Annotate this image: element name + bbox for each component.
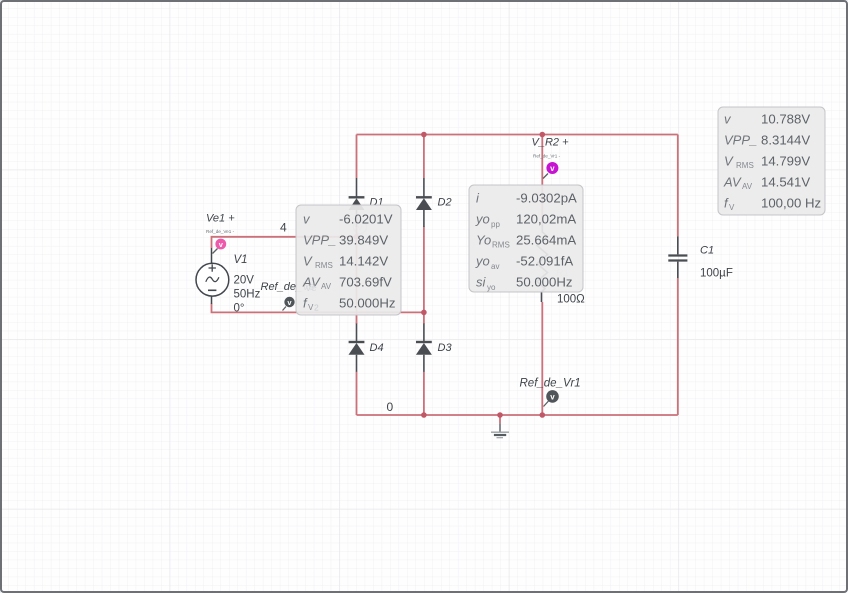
svg-text:Yo: Yo: [476, 233, 491, 248]
svg-text:av: av: [491, 262, 499, 271]
svg-text:AV: AV: [742, 182, 753, 191]
svg-text:10.788V: 10.788V: [761, 112, 810, 127]
svg-text:yo: yo: [475, 212, 490, 227]
junction V1 bottom to D2-D3: [421, 310, 427, 316]
svg-text:V1: V1: [234, 254, 248, 266]
junction top R2: [540, 132, 546, 138]
svg-text:Ref_de_Vr1: Ref_de_Vr1: [520, 378, 581, 390]
svg-text:50Hz: 50Hz: [234, 289, 261, 301]
svg-text:703.69fV: 703.69fV: [339, 275, 392, 290]
svg-text:14.799V: 14.799V: [761, 154, 810, 169]
measurement box 1 (Ve probe readout): [296, 205, 401, 315]
diode D1: [349, 178, 365, 227]
wire ground stub: [499, 415, 501, 423]
svg-text:VPP_: VPP_: [724, 133, 757, 148]
junction node 4: [354, 234, 360, 240]
wire right leg x=423.9: [423, 135, 425, 416]
resistor R2: [537, 225, 548, 302]
svg-text:0: 0: [387, 400, 394, 414]
svg-text:D2: D2: [438, 197, 452, 209]
svg-text:50.000Hz: 50.000Hz: [339, 296, 395, 311]
svg-text:-52.091fA: -52.091fA: [516, 254, 573, 269]
wire bottom rail: [357, 414, 678, 416]
svg-text:Ve: Ve: [305, 283, 317, 294]
junction top D2: [421, 132, 427, 138]
svg-text:0°: 0°: [234, 303, 245, 315]
probe V_R2 (magenta): [543, 162, 558, 179]
svg-text:50.000Hz: 50.000Hz: [516, 275, 572, 290]
svg-text:V: V: [303, 254, 313, 269]
capacitor C1: [668, 236, 687, 278]
svg-text:Ref_de_Vr1 -: Ref_de_Vr1 -: [533, 154, 561, 159]
svg-text:4: 4: [280, 221, 287, 235]
svg-text:25.664mA: 25.664mA: [516, 233, 576, 248]
junction bottom R2: [540, 412, 546, 418]
probe Ref_de_Ve (dark): [283, 297, 295, 311]
svg-text:v: v: [550, 393, 555, 402]
junction bottom D3: [421, 412, 427, 418]
probe Ve1: [213, 239, 227, 254]
svg-text:V: V: [724, 154, 734, 169]
svg-text:14.142V: 14.142V: [339, 254, 388, 269]
svg-text:Ve1 +: Ve1 +: [206, 213, 235, 225]
wire V1 top branch to node 4: [212, 237, 357, 248]
svg-text:C1: C1: [700, 245, 714, 257]
svg-text:-6.0201V: -6.0201V: [339, 212, 393, 227]
svg-text:D4: D4: [370, 342, 384, 354]
svg-text:14.541V: 14.541V: [761, 175, 810, 190]
svg-text:100,00 Hz: 100,00 Hz: [761, 196, 821, 211]
svg-text:120,02mA: 120,02mA: [516, 212, 576, 227]
svg-text:yo: yo: [475, 254, 490, 269]
wire top rail: [357, 134, 678, 136]
svg-text:v: v: [550, 164, 555, 173]
wire V1 bottom branch: [212, 304, 424, 313]
wire R2 branch x=542.3: [541, 135, 543, 416]
source V1: [196, 248, 229, 304]
junction bottom ground: [497, 412, 503, 418]
svg-text:AV: AV: [321, 282, 332, 291]
svg-text:39.849V: 39.849V: [339, 233, 388, 248]
diode D4: [349, 324, 365, 372]
ghost probe Ve at node 4: [354, 221, 367, 237]
wire left leg x=356.5: [356, 135, 358, 416]
svg-text:D3: D3: [438, 342, 453, 354]
svg-text:pp: pp: [491, 220, 500, 229]
measurement box 3 (output voltage readout): [718, 107, 825, 215]
svg-text:20V: 20V: [234, 275, 255, 287]
probe Ref_de_Vr1 (dark): [544, 390, 559, 406]
svg-text:100Ω: 100Ω: [557, 294, 585, 306]
svg-text:V_R2 +: V_R2 +: [532, 137, 570, 149]
svg-text:si: si: [476, 275, 487, 290]
svg-text:Ref_de_Ve1 -: Ref_de_Ve1 -: [206, 229, 235, 234]
svg-text:yo: yo: [487, 283, 496, 292]
wire C1 branch x=677.8: [677, 135, 679, 416]
svg-text:RMS: RMS: [492, 241, 510, 250]
svg-text:100µF: 100µF: [700, 268, 733, 280]
svg-text:AV: AV: [723, 175, 742, 190]
svg-text:VPP_: VPP_: [303, 233, 336, 248]
measurement box 2 (R2 current readout): [469, 185, 583, 292]
svg-text:V: V: [729, 203, 735, 212]
diode D3: [416, 324, 432, 372]
diode D2: [416, 178, 432, 227]
ground: [491, 423, 509, 437]
svg-text:RMS: RMS: [315, 261, 333, 270]
svg-text:-9.0302pA: -9.0302pA: [516, 191, 577, 206]
svg-text:RMS: RMS: [736, 161, 754, 170]
svg-text:8.3144V: 8.3144V: [761, 133, 810, 148]
svg-text:2: 2: [314, 303, 319, 313]
